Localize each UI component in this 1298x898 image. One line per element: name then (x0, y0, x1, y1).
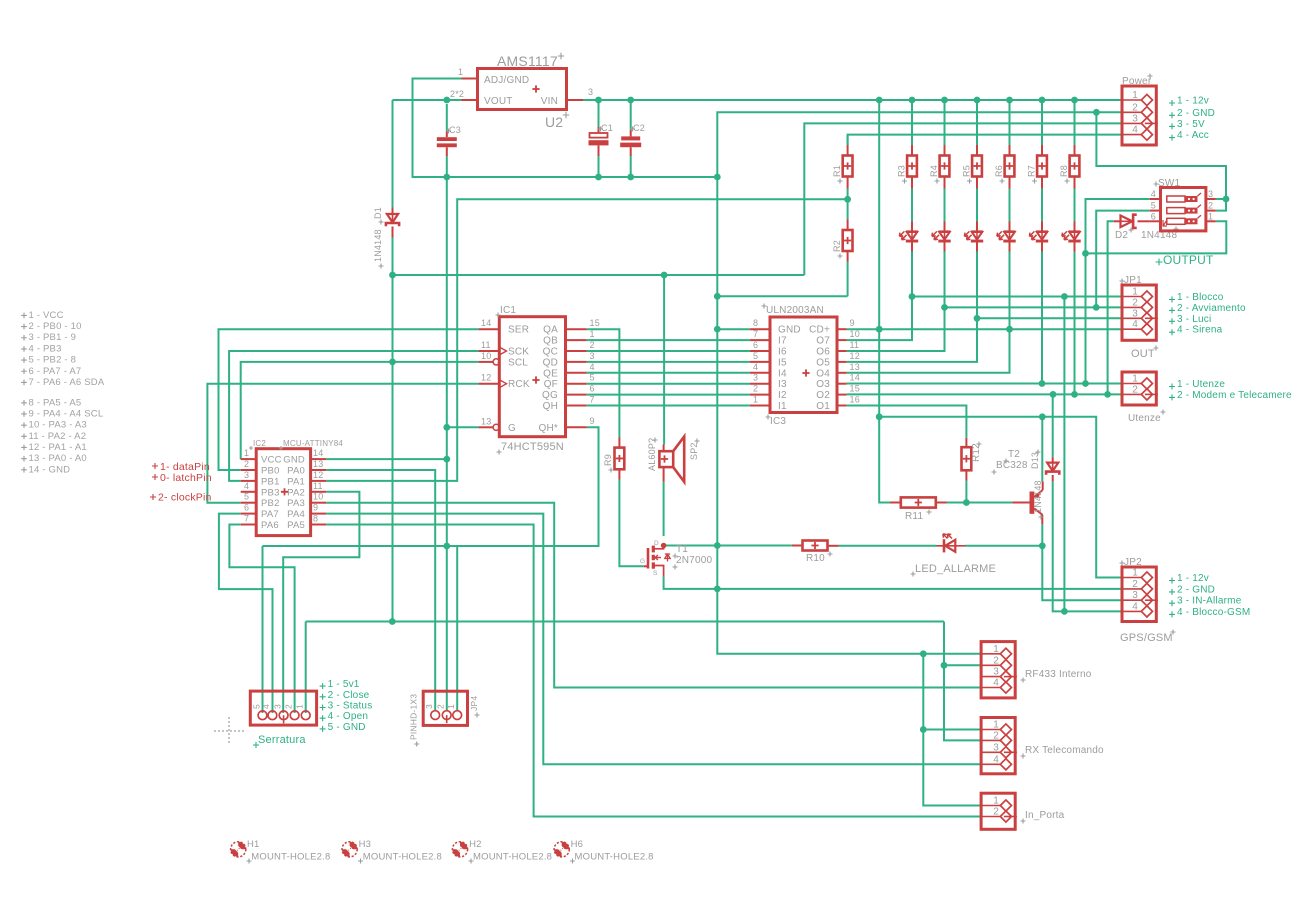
svg-text:10: 10 (481, 351, 491, 361)
svg-text:13: 13 (313, 459, 323, 469)
svg-text:QH: QH (543, 401, 558, 412)
svg-text:1: 1 (244, 448, 249, 458)
svg-text:3 - Luci: 3 - Luci (1177, 314, 1211, 325)
wire Acc: Power pin4 to R1 (848, 135, 1122, 145)
mcu IC2 ATTINY84 (256, 449, 310, 536)
svg-text:3 - PB1 - 9: 3 - PB1 - 9 (29, 332, 77, 343)
svg-text:15: 15 (850, 384, 860, 394)
svg-text:10 - PA3 - A3: 10 - PA3 - A3 (29, 420, 87, 431)
wire IC2 PB0 to IC1 SER (219, 329, 479, 470)
svg-text:R6: R6 (994, 165, 1004, 177)
wire JP1 pin3 row (977, 317, 1122, 319)
svg-text:5: 5 (1151, 201, 1156, 211)
mount hole H6 (554, 842, 569, 857)
svg-text:I2: I2 (778, 390, 787, 401)
svg-text:4 - Open: 4 - Open (328, 711, 369, 722)
LED under R4 (944, 222, 946, 231)
wire 5v rail down to RF pin2 / RX pin2 (944, 622, 981, 741)
wire SW1 pin3 to GND vertical (1216, 198, 1226, 200)
mount hole H1 (231, 842, 246, 857)
svg-text:3 - 5V: 3 - 5V (1177, 119, 1205, 130)
svg-text:AL60P?: AL60P? (647, 438, 657, 471)
svg-text:1: 1 (1132, 568, 1138, 579)
svg-text:BC328: BC328 (996, 460, 1028, 471)
wire VCC rail row 275 (393, 274, 805, 276)
darlington array IC3 ULN2003AN (770, 317, 837, 413)
wire R11-R12-T2 base node (947, 502, 1013, 504)
svg-text:GND: GND (283, 455, 305, 466)
wire ULN GND pin8 (717, 328, 750, 330)
wire ULN O1 to R12 (847, 406, 967, 438)
net labels Utenze pins (1169, 384, 1175, 390)
svg-text:4: 4 (1132, 319, 1138, 330)
wire 5v rail row 621.5 (Serratura 5v1 / RF-RX power) (305, 622, 307, 714)
wire ULN CD+ 12v column (879, 100, 890, 503)
svg-text:3 - Status: 3 - Status (328, 701, 373, 712)
svg-text:2: 2 (993, 730, 999, 741)
svg-text:LED_ALLARME: LED_ALLARME (915, 563, 996, 575)
wire IC2 PB1 to IC1 SCK (229, 351, 479, 481)
connector In_Porta (981, 793, 1015, 829)
svg-text:1: 1 (1132, 374, 1138, 385)
svg-text:Power: Power (1122, 76, 1152, 87)
svg-text:1N4148: 1N4148 (1033, 480, 1043, 513)
svg-text:MOUNT-HOLE2.8: MOUNT-HOLE2.8 (473, 852, 552, 863)
svg-text:5: 5 (244, 492, 249, 502)
svg-text:QE: QE (543, 368, 558, 379)
svg-text:C2: C2 (633, 123, 645, 133)
svg-text:4 - Blocco-GSM: 4 - Blocco-GSM (1177, 607, 1250, 618)
wire IC2 PA4 to RX pin4 (326, 514, 981, 765)
svg-text:13: 13 (850, 362, 860, 372)
svg-text:D: D (654, 540, 659, 547)
svg-text:QA: QA (543, 325, 558, 336)
svg-text:VIN: VIN (541, 96, 558, 107)
svg-text:Utenze: Utenze (1128, 413, 1161, 424)
wire ULN O7 up to JP1 pin1 (847, 251, 912, 340)
resistor R1 (847, 135, 849, 145)
svg-text:RF433 Interno: RF433 Interno (1025, 669, 1092, 680)
wire R10 to LED_ALLARME (839, 545, 937, 547)
svg-text:1 - 5v1: 1 - 5v1 (328, 679, 360, 690)
svg-text:8: 8 (313, 514, 318, 524)
svg-text:D2: D2 (1115, 230, 1128, 241)
svg-text:3: 3 (1132, 590, 1138, 601)
svg-text:1: 1 (1208, 211, 1213, 221)
net labels Serratura pins (320, 683, 326, 689)
svg-text:PA4: PA4 (287, 509, 305, 520)
svg-text:QH*: QH* (539, 423, 559, 434)
svg-text:6: 6 (590, 384, 595, 394)
svg-text:C1: C1 (601, 123, 613, 133)
svg-text:O5: O5 (816, 357, 830, 368)
svg-text:11 - PA2 - A2: 11 - PA2 - A2 (29, 431, 87, 442)
svg-text:3: 3 (1208, 189, 1213, 199)
svg-text:2- clockPin: 2- clockPin (158, 492, 212, 504)
svg-text:I4: I4 (778, 368, 787, 379)
mount hole H2 (452, 842, 467, 857)
resistor R5 (976, 103, 978, 145)
label LED_ALLARME with LED symbol (943, 539, 946, 552)
svg-text:PA0: PA0 (287, 466, 305, 477)
svg-text:6: 6 (753, 340, 758, 350)
svg-text:2 - Avviamento: 2 - Avviamento (1177, 303, 1246, 314)
svg-text:4: 4 (993, 678, 999, 689)
wire IC2 PA5 to In_Porta pin2 (326, 525, 981, 817)
svg-text:SW1: SW1 (1158, 178, 1181, 189)
svg-text:1: 1 (458, 67, 463, 77)
svg-text:O1: O1 (816, 401, 830, 412)
svg-text:IC2: IC2 (253, 439, 266, 448)
svg-text:13 - PA0 - A0: 13 - PA0 - A0 (29, 453, 87, 464)
svg-text:ADJ/GND: ADJ/GND (484, 75, 529, 86)
svg-text:4 - Acc: 4 - Acc (1177, 130, 1209, 141)
svg-text:3: 3 (590, 351, 595, 361)
svg-text:4: 4 (1132, 125, 1138, 136)
LED under R6 (1009, 222, 1011, 231)
wire JP1 pin1 net down to JP2 pin4 (1063, 297, 1065, 612)
svg-text:1N4148: 1N4148 (373, 229, 383, 262)
svg-text:I3: I3 (778, 379, 787, 390)
wire IC2 PB2 to IC1 RCK (207, 384, 478, 503)
svg-text:6 - PA7 - A7: 6 - PA7 - A7 (29, 366, 82, 377)
svg-text:4: 4 (1132, 601, 1138, 612)
svg-text:3: 3 (993, 667, 999, 678)
svg-text:ULN2003AN: ULN2003AN (766, 305, 824, 316)
svg-text:SER: SER (508, 325, 529, 336)
svg-text:O4: O4 (816, 368, 830, 379)
node dataPin latchPin clockPin labels (152, 463, 158, 469)
svg-text:1 - Blocco: 1 - Blocco (1177, 292, 1224, 303)
svg-text:2: 2 (1132, 102, 1138, 113)
svg-text:OUT: OUT (1131, 348, 1155, 360)
svg-text:15: 15 (590, 318, 600, 328)
svg-text:1: 1 (993, 644, 999, 655)
resistor R6 (1009, 103, 1011, 145)
svg-text:14: 14 (481, 318, 491, 328)
svg-text:11: 11 (850, 340, 860, 350)
svg-text:14 - GND: 14 - GND (29, 464, 71, 475)
svg-text:PB3: PB3 (261, 487, 280, 498)
svg-text:1 - Utenze: 1 - Utenze (1177, 379, 1225, 390)
svg-text:VOUT: VOUT (484, 96, 513, 107)
svg-text:12: 12 (481, 373, 491, 383)
wire IC1 SCL to IC2 VCC pin1 (241, 362, 479, 459)
svg-text:7: 7 (244, 514, 249, 524)
svg-text:H2: H2 (469, 839, 482, 850)
svg-text:JP2: JP2 (1124, 557, 1142, 568)
svg-text:I1: I1 (778, 401, 787, 412)
svg-text:3: 3 (272, 704, 282, 709)
svg-text:2: 2 (1132, 579, 1138, 590)
connector Serratura (250, 691, 316, 725)
wire ULN O5 up to JP1 pin3 (847, 251, 977, 362)
wire R2 bottom to GND column (717, 295, 847, 297)
wire IC2 PA7 to Serratura pin4 (219, 514, 273, 713)
svg-text:1: 1 (993, 720, 999, 731)
svg-text:MOUNT-HOLE2.8: MOUNT-HOLE2.8 (575, 852, 654, 863)
svg-text:4: 4 (1151, 189, 1156, 199)
diode D2 1N4148 (1114, 220, 1121, 222)
LED under R5 (976, 222, 978, 231)
wire ULN O6 up to JP1 pin2 (847, 251, 945, 351)
svg-text:T1: T1 (676, 544, 688, 555)
svg-text:SP2: SP2 (689, 442, 699, 460)
wire SW1 pin1 to OUTPUT row (1086, 221, 1227, 253)
svg-text:3: 3 (588, 87, 593, 97)
svg-text:R7: R7 (1027, 165, 1037, 177)
svg-text:QG: QG (542, 390, 558, 401)
svg-text:9: 9 (590, 416, 595, 426)
svg-text:PA7: PA7 (261, 509, 279, 520)
svg-text:PA2: PA2 (287, 487, 305, 498)
svg-text:1: 1 (295, 704, 305, 709)
svg-text:3: 3 (424, 704, 434, 709)
svg-text:1: 1 (993, 796, 999, 807)
junction dots on GND rail (443, 174, 450, 181)
wire IC2 GND pin14 to GND column (326, 458, 447, 460)
svg-text:R9: R9 (603, 454, 613, 466)
svg-text:3 - IN-Allarme: 3 - IN-Allarme (1177, 596, 1242, 607)
diode D13 1N4148 (1052, 457, 1054, 462)
svg-text:12: 12 (313, 470, 323, 480)
svg-text:2 - PB0 - 10: 2 - PB0 - 10 (29, 321, 82, 332)
svg-text:G: G (640, 558, 645, 565)
wire D1/VCC column (392, 100, 394, 208)
connector JP2 (1122, 567, 1156, 622)
svg-text:1: 1 (1132, 90, 1138, 101)
wire LED_ALLARME to T2 collector node (965, 545, 1043, 547)
svg-text:C3: C3 (449, 125, 461, 135)
wire RX pin1 (923, 729, 981, 731)
svg-text:I6: I6 (778, 347, 787, 358)
svg-text:O3: O3 (816, 379, 830, 390)
svg-text:5: 5 (753, 351, 758, 361)
svg-text:SCL: SCL (508, 357, 528, 368)
wire SW1 pin4 to OUTPUT node (1086, 199, 1150, 384)
svg-text:1: 1 (590, 329, 595, 339)
svg-text:0- latchPin: 0- latchPin (160, 472, 212, 484)
svg-text:11: 11 (481, 340, 491, 350)
resistor R7 (1041, 103, 1043, 145)
svg-text:O2: O2 (816, 390, 830, 401)
svg-text:7: 7 (753, 329, 758, 339)
speaker SP2 AL60P (659, 451, 673, 467)
svg-text:2: 2 (283, 704, 293, 709)
svg-text:8 - PA5 - A5: 8 - PA5 - A5 (29, 397, 82, 408)
wire 12v top rail (VIN to Power pin1) (583, 99, 1122, 101)
connector Power (1122, 86, 1156, 145)
svg-text:4: 4 (753, 362, 758, 372)
wire VOUT row to C3 and D1 (393, 99, 462, 101)
svg-text:T2: T2 (1008, 449, 1020, 460)
svg-text:9: 9 (313, 503, 318, 513)
svg-text:4: 4 (993, 754, 999, 765)
svg-text:H3: H3 (359, 839, 372, 850)
wire IC1 QH* down-left (457, 427, 598, 546)
svg-text:R3: R3 (897, 165, 907, 177)
connector JP4 PINHD-1X3 (423, 691, 467, 725)
dip switch SW1 (1161, 188, 1206, 231)
svg-text:2: 2 (1208, 201, 1213, 211)
mount hole H3 (342, 842, 357, 857)
svg-text:QC: QC (543, 347, 558, 358)
svg-text:RX Telecomando: RX Telecomando (1025, 745, 1104, 756)
svg-text:1 - 12v: 1 - 12v (1177, 96, 1209, 107)
svg-text:PA3: PA3 (287, 498, 305, 509)
wire T1 source to JP2 pin2 GND row (664, 576, 1122, 589)
capacitor C3 (446, 104, 448, 132)
wire IC1 QB-QH to ULN I7-I1 (587, 339, 750, 341)
svg-text:10: 10 (850, 329, 860, 339)
wire SP2 bottom to T1 drain (663, 482, 665, 536)
svg-text:IC1: IC1 (500, 305, 516, 316)
svg-text:4: 4 (261, 704, 271, 709)
svg-text:1 - VCC: 1 - VCC (29, 310, 64, 321)
svg-text:PINHD-1X3: PINHD-1X3 (409, 694, 419, 740)
svg-text:2: 2 (436, 704, 446, 709)
svg-text:JP1: JP1 (1124, 275, 1142, 286)
wire ULN O2 row to Utenze pin2 (847, 393, 1122, 395)
shift register IC1 74HCT595N (499, 317, 565, 437)
svg-text:AMS1117: AMS1117 (497, 53, 558, 69)
svg-text:CD+: CD+ (809, 325, 830, 336)
capacitor C1 (598, 103, 600, 127)
wire T1 drain node to R10 (664, 545, 792, 547)
svg-text:2N7000: 2N7000 (676, 555, 712, 566)
wire divider sense row 199 to PA1 (326, 199, 847, 481)
svg-text:2: 2 (1132, 297, 1138, 308)
wire D2 anode down to O2 row (1108, 221, 1114, 394)
svg-text:QF: QF (544, 379, 558, 390)
svg-text:5 - PB2 - 8: 5 - PB2 - 8 (29, 355, 77, 366)
diode D1 1N4148 (392, 208, 394, 214)
resistor R9 (618, 438, 620, 448)
svg-text:14: 14 (313, 448, 323, 458)
svg-text:2 - Modem e Telecamere: 2 - Modem e Telecamere (1177, 390, 1292, 401)
svg-text:2: 2 (244, 459, 249, 469)
wire T2 emitter feed (1041, 417, 1043, 482)
svg-text:4: 4 (590, 362, 595, 372)
svg-text:R5: R5 (962, 165, 972, 177)
svg-text:G: G (508, 423, 516, 434)
svg-text:MCU-ATTINY84: MCU-ATTINY84 (283, 439, 343, 448)
transistor T2 BC328 pnp (1012, 502, 1030, 504)
svg-text:7: 7 (590, 395, 595, 405)
wire GND row 546 to Serratura pin5 and JP4 pin1 (263, 546, 458, 711)
wire D13 column from O2 row to JP2 pin4 (1052, 394, 1054, 457)
svg-text:R2: R2 (832, 240, 842, 252)
svg-text:PB2: PB2 (261, 498, 280, 509)
svg-text:4 - PB3: 4 - PB3 (29, 343, 62, 354)
svg-text:MOUNT-HOLE2.8: MOUNT-HOLE2.8 (251, 852, 330, 863)
svg-text:7 - PA6 - A6 SDA: 7 - PA6 - A6 SDA (29, 377, 105, 388)
wire 5V: Power pin3 to VCC rail corner (804, 123, 1122, 275)
connector RF433 Interno (981, 642, 1015, 698)
wire GND jumper row2 to SW1 right side (1096, 112, 1226, 210)
svg-text:I7: I7 (778, 336, 787, 347)
wire R8 LED column to O2 row (1074, 251, 1076, 394)
svg-text:R12: R12 (971, 443, 982, 462)
svg-text:O7: O7 (816, 336, 830, 347)
connector Utenze (1122, 372, 1156, 405)
svg-text:4 - Sirena: 4 - Sirena (1177, 325, 1223, 336)
wire ULN O3 row to Utenze pin1 (847, 383, 1122, 385)
origin crosshair (214, 717, 244, 745)
wire IC2 PA0 to JP4 pin3 (326, 470, 435, 711)
wire 12v row 416.8 to JP2 pin1 (879, 417, 1122, 578)
svg-text:1: 1 (1132, 287, 1138, 298)
connector JP1 (1122, 285, 1156, 340)
mcu pin list text block (21, 313, 27, 319)
net labels JP2 pins (1169, 578, 1175, 584)
wire R1/R2 divider column (847, 189, 849, 220)
svg-text:R11: R11 (905, 511, 923, 522)
net labels JP1 pins (1169, 297, 1175, 303)
resistor R4 (944, 103, 946, 145)
svg-text:IC3: IC3 (770, 416, 786, 427)
resistor R12 (965, 438, 967, 447)
svg-text:6: 6 (1151, 211, 1156, 221)
svg-text:2 - Close: 2 - Close (328, 690, 370, 701)
svg-text:2 - GND: 2 - GND (1177, 108, 1215, 119)
wire T2 collector to LED node and JP2 pin3 (1042, 524, 1122, 600)
wire IC1 QA to R9 (587, 329, 620, 437)
net labels Power pins (1169, 100, 1175, 106)
wire IC2 PA6 to Serratura pin2 (229, 525, 294, 714)
wire SW1 pin5 down to JP1 pin2 row (1096, 211, 1150, 308)
wire IC2 PA3 to RF433 pin4 (326, 503, 981, 688)
svg-text:2*2: 2*2 (450, 89, 464, 99)
svg-text:GPS/GSM: GPS/GSM (1120, 632, 1173, 644)
svg-text:10: 10 (313, 492, 323, 502)
wire speaker SP2 top feed (663, 275, 665, 445)
resistor R8 (1074, 103, 1076, 145)
transistor T1 2N7000 n-mosfet (647, 548, 650, 569)
svg-text:2: 2 (993, 655, 999, 666)
wire GND branch to RF/RX/In_Porta pin1 (923, 654, 981, 806)
svg-text:PA6: PA6 (261, 520, 279, 531)
svg-text:16: 16 (850, 395, 860, 405)
svg-text:2: 2 (993, 807, 999, 818)
svg-text:6: 6 (244, 503, 249, 513)
svg-text:12: 12 (850, 351, 860, 361)
svg-text:4: 4 (244, 481, 249, 491)
svg-text:O6: O6 (816, 347, 830, 358)
svg-text:MOUNT-HOLE2.8: MOUNT-HOLE2.8 (363, 852, 442, 863)
svg-text:5 - GND: 5 - GND (328, 722, 366, 733)
svg-text:5: 5 (590, 373, 595, 383)
svg-text:2 - GND: 2 - GND (1177, 584, 1215, 595)
svg-text:QB: QB (543, 336, 558, 347)
wire U2 ADJ/GND pin1 to GND rail (413, 79, 718, 178)
capacitor C2 (630, 103, 632, 130)
svg-text:2: 2 (753, 384, 758, 394)
svg-text:12 - PA1 - A1: 12 - PA1 - A1 (29, 442, 87, 453)
wire IC1 G pin to GND column (447, 426, 479, 428)
svg-text:PB0: PB0 (261, 466, 280, 477)
svg-text:3: 3 (1132, 308, 1138, 319)
wire GND net: Power pin2 row down at 717 (717, 112, 1122, 654)
svg-text:H6: H6 (571, 839, 584, 850)
wire GND column from C3 to JP4 pin2 (446, 177, 448, 711)
svg-text:1 - 12v: 1 - 12v (1177, 573, 1209, 584)
wire R12 bottom (965, 481, 967, 503)
svg-text:R1: R1 (832, 165, 842, 177)
svg-text:VCC: VCC (261, 455, 282, 466)
svg-text:RCK: RCK (508, 379, 530, 390)
svg-text:2: 2 (590, 340, 595, 350)
